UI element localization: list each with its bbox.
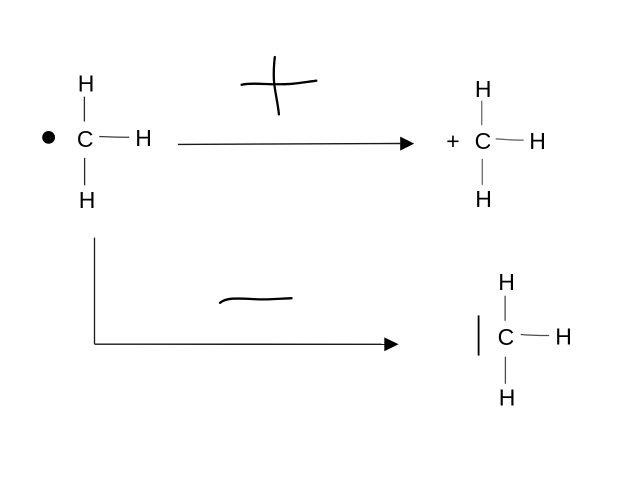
minus charge bar of anion [478, 315, 480, 355]
bond C-H bottom (CH3-) [504, 357, 506, 384]
branch connector vertical segment [94, 238, 96, 345]
bond C-H right (CH3+) [496, 139, 524, 140]
svg-text:H: H [135, 125, 152, 151]
svg-text:H: H [499, 385, 516, 411]
bond C-H top (CH3+) [481, 101, 483, 126]
handwritten minus stroke [220, 298, 292, 303]
radical electron dot [42, 131, 55, 144]
branch arrow bottom shaft [95, 343, 385, 345]
svg-text:H: H [555, 324, 572, 350]
svg-text:C: C [498, 324, 515, 350]
branch arrow bottom head [384, 337, 398, 351]
bond C-H top (left molecule) [83, 97, 85, 122]
bond C-H right (CH3-) [521, 335, 550, 336]
bond C-H bottom (CH3+) [481, 159, 483, 185]
svg-text:+: + [446, 128, 459, 154]
svg-text:H: H [78, 70, 95, 96]
handwritten plus vertical stroke [274, 57, 279, 114]
svg-text:C: C [77, 126, 94, 152]
reaction arrow top head [400, 137, 414, 151]
svg-text:H: H [475, 186, 492, 212]
svg-text:H: H [529, 128, 546, 154]
svg-text:C: C [475, 128, 492, 154]
bond C-H top (CH3-) [504, 296, 506, 321]
bond C-H bottom (left molecule) [84, 158, 86, 185]
bond C-H right (left molecule) [99, 136, 129, 139]
handwritten plus horizontal stroke [242, 81, 317, 85]
svg-text:H: H [79, 187, 96, 213]
svg-text:H: H [498, 269, 515, 295]
svg-text:H: H [475, 76, 492, 102]
reaction arrow top shaft [178, 143, 400, 146]
